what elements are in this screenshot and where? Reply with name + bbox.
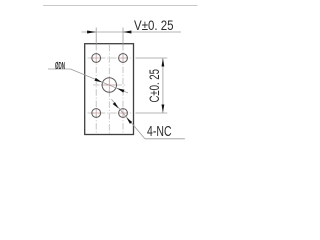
dimension C line bbox=[162, 58, 164, 113]
svg-text:V±0. 25: V±0. 25 bbox=[134, 17, 173, 33]
svg-text:4-NC: 4-NC bbox=[147, 122, 171, 139]
top rule line bbox=[43, 5, 198, 7]
centerline horizontal top bolt row bbox=[88, 57, 132, 59]
centerline vertical left bolt column bbox=[95, 44, 97, 133]
leader 4-NC arrow below hole (points up-left) bbox=[127, 118, 133, 124]
center hole bbox=[102, 78, 116, 92]
bolt hole bottom-left bbox=[92, 109, 101, 118]
dimension C arrow up bbox=[162, 58, 165, 66]
red centermark top-left hole bbox=[91, 53, 101, 63]
dimension C arrow down bbox=[162, 105, 165, 113]
svg-text:ØDN: ØDN bbox=[55, 60, 65, 72]
bolt hole top-left bbox=[92, 54, 101, 63]
red centermark top-right hole bbox=[118, 53, 128, 63]
leader ØDN shelf bbox=[48, 68, 71, 70]
leader 4-NC diagonal bbox=[111, 99, 144, 139]
bolt hole bottom-right bbox=[119, 109, 128, 118]
dimension C extension line top bbox=[136, 57, 168, 59]
leader ØDN diagonal bbox=[71, 69, 129, 93]
leader ØDN arrow at left edge of center hole (points down-right) bbox=[95, 78, 103, 82]
dimension C extension line bottom bbox=[136, 112, 168, 114]
dimension V line bbox=[82, 31, 182, 33]
red centermark center hole bbox=[101, 77, 118, 94]
dimension V arrow right (points left at extension line) bbox=[123, 31, 131, 34]
centerline horizontal bottom bolt row bbox=[88, 112, 132, 114]
centerline horizontal center hole bbox=[93, 84, 126, 86]
leader 4-NC shelf bbox=[145, 138, 185, 140]
red centermark bottom-left hole bbox=[91, 108, 101, 118]
svg-text:C±0. 25: C±0. 25 bbox=[147, 69, 162, 103]
centerline vertical right bolt column bbox=[122, 44, 124, 133]
red centermark bottom-right hole bbox=[118, 108, 128, 118]
plate outline bbox=[85, 44, 134, 135]
centerline vertical middle bbox=[108, 45, 110, 134]
leader ØDN arrow at right edge of center hole (points up-left) bbox=[117, 88, 125, 92]
leader 4-NC arrow above hole (points down-right) bbox=[113, 102, 119, 108]
dimension V extension line left bbox=[95, 28, 97, 45]
dimension V arrow left (points right at extension line) bbox=[87, 31, 96, 34]
bolt hole top-right bbox=[119, 54, 128, 63]
dimension V extension line right bbox=[122, 28, 124, 45]
